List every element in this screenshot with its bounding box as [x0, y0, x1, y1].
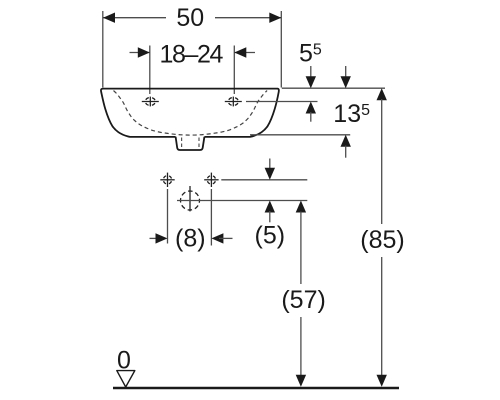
drain hidden line left	[181, 138, 183, 150]
13^5 down arrowhead	[341, 76, 351, 88]
(5) up arrow tail	[269, 211, 271, 222]
svg-text:(57): (57)	[281, 286, 325, 314]
13^5 up arrowhead	[341, 135, 351, 147]
tap hole right cross	[225, 97, 242, 107]
extension line below right fixing hole	[210, 189, 212, 246]
(85) line upper segment	[381, 99, 383, 224]
extension line below left fixing hole	[167, 189, 169, 244]
5^5 down arrow tail	[310, 66, 312, 78]
svg-text:(8): (8)	[175, 224, 206, 252]
tap hole left cross	[142, 97, 159, 107]
datum triangle	[117, 371, 135, 387]
extension line left of 50 dim	[102, 11, 104, 88]
13^5 up arrow tail	[345, 146, 347, 158]
extension line left of 18-24 dim	[149, 46, 151, 95]
(57) down arrowhead	[296, 375, 306, 387]
svg-text:50: 50	[176, 4, 204, 32]
svg-text:18–24: 18–24	[160, 41, 224, 69]
rim leader line right	[282, 87, 385, 89]
(8) arrowhead right (points left)	[211, 233, 223, 243]
(8) dim tail right	[219, 237, 233, 239]
13^5 down arrow tail	[345, 66, 347, 78]
(85) up arrowhead	[377, 88, 387, 100]
5^5 down arrowhead	[306, 76, 316, 88]
arrowhead 50 left	[103, 13, 115, 23]
fixing hole left cross	[160, 173, 174, 187]
(5) down arrow tail	[269, 159, 271, 171]
dimension line 50 left segment	[103, 17, 166, 19]
floor line	[113, 387, 399, 389]
arrowhead 18-24 right (points left)	[234, 47, 246, 57]
fixing holes ref line / (5) upper ref line	[221, 179, 307, 181]
(57) line upper segment	[300, 212, 302, 285]
drain hidden line right	[198, 138, 200, 150]
drain hole dashed circle	[181, 191, 200, 210]
(8) arrowhead left (points right)	[156, 233, 168, 243]
arrowhead 18-24 left (points right)	[138, 47, 150, 57]
extension line right of 18-24 dim	[233, 46, 235, 95]
svg-text:(85): (85)	[360, 226, 404, 254]
dimension line 50 right segment	[215, 17, 281, 19]
dim tail left 18-24	[130, 52, 150, 54]
fixing hole right cross	[204, 173, 218, 187]
5^5 up arrowhead	[306, 102, 316, 114]
(8) dim tail left	[150, 237, 161, 239]
basin inner bowl dashed	[114, 91, 268, 136]
(57) up arrowhead	[296, 201, 306, 213]
basin outline	[101, 89, 279, 137]
(57) line lower segment	[300, 317, 302, 376]
5^5 up arrow tail	[310, 112, 312, 122]
(85) line lower segment	[381, 257, 383, 376]
tap level leader line	[246, 101, 318, 103]
(5) down arrowhead	[265, 168, 275, 180]
svg-text:(5): (5)	[255, 222, 286, 250]
(85) down arrowhead	[377, 375, 387, 387]
bottom edge leader line	[250, 134, 350, 136]
drain outline	[176, 137, 205, 150]
drain hole vertical centerline	[189, 186, 191, 211]
(5) up arrowhead	[265, 201, 275, 213]
arrowhead 50 right	[269, 13, 281, 23]
drain centerline / (5) lower ref line	[177, 200, 307, 202]
dim tail right 18-24	[234, 52, 255, 54]
extension line right of 50 dim	[280, 11, 282, 88]
